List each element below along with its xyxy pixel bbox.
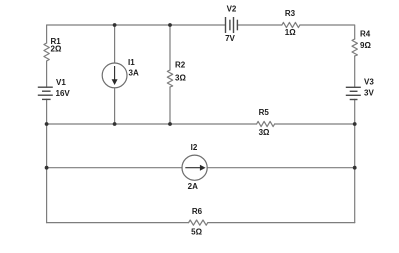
resistor R1 [44,43,49,61]
wire right V3-to-row2 [354,99,356,124]
svg-text:3Ω: 3Ω [259,128,270,137]
current source I2 circle [182,155,207,180]
junction node top-R2 [168,23,172,27]
wire top V2-to-R3 [237,24,282,26]
wire left R1-to-V1 [46,61,48,87]
wire I1 branch bottom [114,88,116,124]
wire R2 branch bottom [169,87,171,124]
junction node row3-left [45,166,49,170]
svg-text:1Ω: 1Ω [285,28,296,37]
svg-text:I2: I2 [191,143,198,152]
wire row2 R5-to-right [275,123,355,125]
svg-text:2A: 2A [188,182,198,191]
wire bottom R6-to-right [208,222,355,224]
junction node row2-right [353,122,357,126]
resistor R3 [282,22,300,27]
svg-text:9Ω: 9Ω [360,41,371,50]
junction node row2-left [45,122,49,126]
svg-text:3Ω: 3Ω [175,73,186,82]
svg-text:7V: 7V [225,34,235,43]
current source I1 circle [102,63,127,88]
I2 arrow (right) [185,165,205,171]
wire left row2-to-bottom [46,124,48,223]
wire row3 I2-to-right [207,167,355,169]
junction node row3-right [353,166,357,170]
wire right R4-to-V3 [354,56,356,87]
wire row3 left-to-I2 [47,167,183,169]
svg-text:R4: R4 [360,29,371,38]
svg-text:R5: R5 [259,108,270,117]
svg-text:3A: 3A [129,68,139,77]
junction node top-I1 [113,23,117,27]
svg-text:5Ω: 5Ω [191,227,202,236]
svg-text:16V: 16V [56,89,71,98]
wire top-left segment [47,25,226,43]
svg-text:V2: V2 [227,4,237,13]
wire right row2-to-bottom [354,124,356,223]
resistor R6 [189,220,208,225]
junction node row2-I1 [113,122,117,126]
junction node row2-R2 [168,122,172,126]
battery V2 [226,17,238,33]
svg-text:2Ω: 2Ω [51,45,62,54]
svg-text:I1: I1 [128,58,135,67]
wire left V1-to-row2 [46,99,48,124]
svg-text:R6: R6 [192,207,203,216]
wire R2 branch top [169,25,171,70]
wire row2 left-to-R5 [47,123,257,125]
resistor R4 [352,39,357,56]
resistor R2 [167,70,172,87]
battery V1 [38,87,53,99]
svg-text:R3: R3 [285,9,296,18]
svg-text:3V: 3V [364,88,374,97]
svg-text:V1: V1 [56,78,66,87]
svg-text:V3: V3 [364,77,374,86]
svg-text:R2: R2 [175,61,186,70]
wire bottom left-to-R6 [47,222,189,224]
wire top R3-to-right corner [300,25,355,39]
battery V3 [346,87,361,99]
I1 arrow (down) [112,66,118,85]
wire I1 branch top [114,25,116,63]
resistor R5 [257,121,275,126]
